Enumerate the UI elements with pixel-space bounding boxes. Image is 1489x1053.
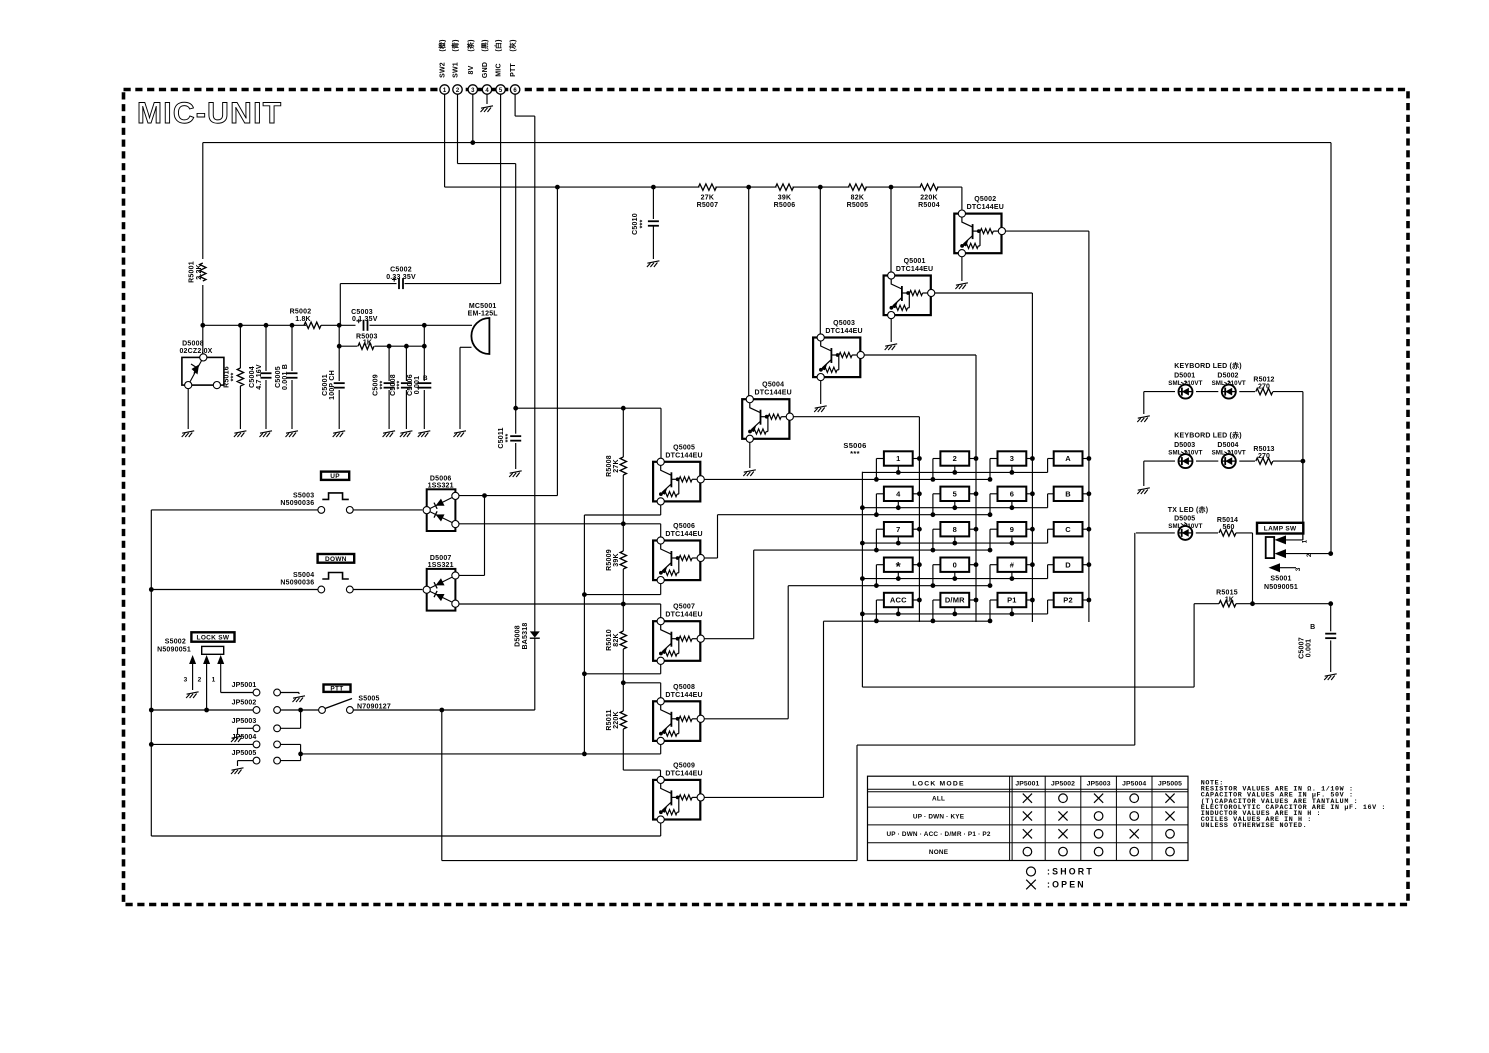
- key S5006 P1: [998, 593, 1027, 607]
- node 8V rail junction pin3: [470, 140, 475, 145]
- wire key right stub: [1083, 493, 1089, 495]
- svg-text:SW1: SW1: [453, 62, 460, 78]
- svg-text:***: ***: [640, 220, 647, 229]
- wire left rail vertical: [150, 510, 152, 836]
- wire TX LED net: [441, 710, 443, 861]
- svg-text:JP5004: JP5004: [1122, 781, 1146, 788]
- wire LED row2 left drop to ground: [1143, 461, 1145, 486]
- wire key right stub: [1026, 458, 1032, 460]
- svg-text:R5008: R5008: [606, 455, 613, 477]
- svg-text:D5003: D5003: [1174, 442, 1195, 449]
- wire key right stub: [913, 458, 920, 460]
- wire S5001 pin2 to 8V: [1286, 553, 1331, 555]
- wire key right stub: [969, 493, 976, 495]
- wire key left stub: [933, 458, 941, 460]
- svg-text:2: 2: [198, 677, 202, 684]
- resistor R5005 82K: [848, 184, 866, 190]
- transistor Q5004 DTC144EU: [742, 396, 793, 443]
- key S5006 D/MR: [940, 593, 969, 607]
- svg-text:JP5001: JP5001: [1015, 781, 1039, 788]
- svg-text:D/MR: D/MR: [945, 596, 965, 605]
- svg-text:39K: 39K: [613, 553, 620, 566]
- key S5006 7: [884, 522, 913, 536]
- svg-text:0.001 B: 0.001 B: [282, 364, 289, 390]
- key S5006 B: [1054, 487, 1083, 501]
- svg-text:2: 2: [953, 454, 957, 463]
- node ladder/Q5008 feed: [621, 680, 626, 685]
- svg-text:8V: 8V: [468, 65, 475, 74]
- wire TX LED row: [1136, 532, 1175, 534]
- svg-text:JP5005: JP5005: [1158, 781, 1182, 788]
- node TX LED branch: [439, 708, 444, 713]
- svg-text:D5002: D5002: [1217, 373, 1238, 380]
- node key lower line: [874, 512, 879, 517]
- ground LED row1: [1137, 416, 1150, 422]
- wire common bus to R5015: [862, 686, 1194, 688]
- wire Q5001 output to column3: [934, 292, 1032, 294]
- svg-text:Q5006: Q5006: [673, 523, 695, 530]
- ground Q5002: [955, 283, 968, 289]
- svg-text:P1: P1: [1007, 596, 1017, 605]
- key S5006 P2: [1054, 593, 1083, 607]
- svg-text:N5090036: N5090036: [280, 500, 314, 507]
- wire key right stub: [913, 599, 920, 601]
- wire Q5006 emitter jog: [660, 584, 662, 595]
- svg-text:S5005: S5005: [358, 696, 379, 703]
- node SW2/D-net branch: [555, 185, 560, 190]
- wire LED row1 left drop to ground: [1143, 392, 1145, 414]
- wire ladder to Q5008 collector: [623, 682, 660, 684]
- svg-text:***: ***: [397, 381, 404, 390]
- svg-text:82K: 82K: [851, 195, 864, 202]
- wire Q5005 emitter jog: [660, 505, 662, 515]
- svg-text:DOWN: DOWN: [325, 556, 347, 563]
- connector pin 3: [468, 85, 477, 94]
- svg-text:1: 1: [896, 454, 900, 463]
- capacitor C5010: [652, 187, 654, 219]
- wire Q5009 emitter to bottom rail: [660, 823, 662, 836]
- ground Q5004: [743, 470, 756, 476]
- wire JP5004/JP5005 right jog: [300, 744, 302, 760]
- node R5008 ladder top: [621, 406, 626, 411]
- wire Q5003 output to column2: [864, 354, 976, 356]
- connector pin 5: [496, 85, 505, 94]
- svg-text:N5090051: N5090051: [157, 647, 191, 654]
- wire key left stub (col4): [1048, 493, 1054, 495]
- wire D5006/D5007 tie: [484, 496, 486, 576]
- svg-text:S5002: S5002: [165, 639, 186, 646]
- dual diode D5007 1SS321: [423, 569, 459, 611]
- wire JP5003 left to ground: [238, 727, 254, 729]
- node JP5002 right branch: [298, 708, 303, 713]
- wire Q5005 output row1 feed: [704, 478, 876, 480]
- wire key left stub: [990, 493, 998, 495]
- svg-text:(茶): (茶): [466, 39, 475, 51]
- wire key bottom stub: [897, 536, 899, 543]
- ground C5005: [286, 431, 299, 437]
- capacitor C5001 100P CH: [338, 346, 340, 381]
- svg-text:DTC144EU: DTC144EU: [665, 612, 702, 619]
- node emitter bus Q5007: [582, 671, 587, 676]
- svg-text:C5004: C5004: [249, 366, 256, 388]
- wire Q5007 emitter jog: [660, 664, 662, 673]
- wire key right stub: [913, 528, 920, 530]
- svg-text:02CZ2.0X: 02CZ2.0X: [179, 348, 212, 355]
- node rail2 C5009: [387, 344, 392, 349]
- key S5006 5: [940, 487, 969, 501]
- wire key bottom stub: [954, 607, 956, 614]
- transistor Q5003 DTC144EU: [813, 334, 864, 381]
- wire key right stub: [1026, 564, 1032, 566]
- wire ladder top segment: [622, 408, 624, 457]
- wire R5001 vertical from 8V rail: [202, 143, 204, 259]
- wire to Q5002 collector: [961, 187, 963, 210]
- wire zener to ground: [187, 389, 189, 429]
- svg-text:1SS321: 1SS321: [428, 562, 454, 569]
- node DOWN rail left: [149, 587, 154, 592]
- svg-text:3: 3: [1010, 454, 1014, 463]
- node rail1 C5002 tap: [337, 323, 342, 328]
- svg-text:C5005: C5005: [275, 366, 282, 388]
- wire key right stub: [1083, 528, 1089, 530]
- switch S5002 body: [202, 646, 224, 654]
- svg-text:LOCK MODE: LOCK MODE: [912, 781, 964, 788]
- wire keypad row upper line: [862, 471, 1047, 473]
- svg-text:C5002: C5002: [390, 267, 412, 274]
- svg-text:R5016: R5016: [224, 366, 231, 388]
- svg-text:C5007: C5007: [1299, 637, 1306, 659]
- key S5006 9: [998, 522, 1027, 536]
- key S5006 6: [998, 487, 1027, 501]
- svg-text:PTT: PTT: [510, 63, 517, 77]
- svg-text:4.7 16V: 4.7 16V: [256, 364, 263, 390]
- wire Q5002 output to column4: [1005, 230, 1089, 232]
- wire key bottom stub: [1011, 466, 1013, 473]
- wire pin5 MIC drop: [500, 94, 502, 284]
- svg-text:MC5001: MC5001: [469, 303, 497, 310]
- svg-text:***: ***: [505, 434, 512, 443]
- wire JP5005 left to ground: [238, 760, 254, 762]
- svg-text::SHORT: :SHORT: [1047, 867, 1094, 877]
- wire LED row1: [1144, 391, 1175, 393]
- wire key right stub: [969, 599, 976, 601]
- transistor Q5007 DTC144EU: [653, 618, 704, 665]
- resistor R5001 2.2K: [200, 263, 206, 281]
- svg-text:DTC144EU: DTC144EU: [665, 531, 702, 538]
- svg-text:MIC: MIC: [496, 63, 503, 76]
- svg-text:C5010: C5010: [632, 213, 639, 235]
- transistor Q5005 DTC144EU: [653, 458, 704, 505]
- wire Q5003 emitter to ground: [820, 381, 822, 404]
- svg-text:D5004: D5004: [1217, 442, 1238, 449]
- svg-text:82K: 82K: [613, 633, 620, 646]
- wire key left stub: [990, 599, 998, 601]
- svg-text:MIC-UNIT: MIC-UNIT: [137, 97, 282, 130]
- svg-text:Q5002: Q5002: [974, 196, 996, 203]
- node key lower line: [988, 619, 993, 624]
- svg-text:ACC: ACC: [890, 596, 907, 605]
- svg-text:27K: 27K: [701, 195, 714, 202]
- label box DOWN: [318, 554, 355, 563]
- node key lower line: [988, 512, 993, 517]
- label box LAMP SW: [1257, 523, 1303, 534]
- switch S5001 pin3 (NC): [1269, 563, 1281, 572]
- svg-text:P2: P2: [1063, 596, 1073, 605]
- wire key right stub: [913, 564, 920, 566]
- jumper JP5001: [253, 689, 260, 696]
- jumper JP5003: [253, 725, 260, 732]
- wire DOWN rail: [151, 589, 318, 591]
- svg-text:1K: 1K: [363, 340, 372, 347]
- connector pin 6: [510, 85, 519, 94]
- svg-text:***: ***: [850, 449, 860, 458]
- svg-text:***: ***: [231, 373, 238, 382]
- wire key bottom stub: [1011, 536, 1013, 543]
- resistor R5007 27K: [698, 184, 716, 190]
- wire key left stub (col4): [1048, 458, 1054, 460]
- node SW1 collector node: [513, 406, 518, 411]
- capacitor C5006 0.001 B: [423, 346, 425, 381]
- switch S5002 pin3 arrow: [189, 655, 196, 664]
- svg-text:DTC144EU: DTC144EU: [755, 390, 792, 397]
- capacitor C5005 0.001 B: [291, 325, 293, 371]
- resistor R5015 1K: [1219, 601, 1236, 607]
- wire key right stub: [969, 528, 976, 530]
- resistor R5003 1K: [358, 343, 374, 349]
- wire Q5004 output to column1: [793, 416, 919, 418]
- svg-text:DTC144EU: DTC144EU: [665, 770, 702, 777]
- wire key bottom stub: [1011, 607, 1013, 614]
- switch S5003 N5090036 (UP): [318, 507, 325, 514]
- capacitor C5007 0.001 B: [1330, 604, 1332, 632]
- key S5006 C: [1054, 522, 1083, 536]
- svg-text:R5009: R5009: [606, 549, 613, 571]
- svg-text:A: A: [1065, 454, 1071, 463]
- wire JP5003 right jog: [281, 727, 301, 729]
- svg-text:JP5003: JP5003: [232, 718, 257, 725]
- svg-text:SW2: SW2: [440, 62, 447, 78]
- key S5006 1: [884, 451, 913, 465]
- connector pin 1: [440, 85, 449, 94]
- node rail2 C5008: [404, 344, 409, 349]
- ground JP5005: [231, 768, 244, 774]
- switch S5004 N5090036 (DOWN): [318, 586, 325, 593]
- wire key right stub: [969, 458, 976, 460]
- wire key right stub: [1083, 564, 1089, 566]
- resistor R5009 39K: [622, 524, 624, 551]
- svg-text:1: 1: [1302, 539, 1309, 543]
- svg-text:Q5007: Q5007: [673, 604, 695, 611]
- transistor Q5006 DTC144EU: [653, 537, 704, 584]
- wire Q5009 output row5 feed: [704, 796, 824, 798]
- wire S5003 to D5006: [353, 509, 422, 511]
- wire pin2 SW1 jog: [457, 94, 459, 164]
- node common bus: [860, 612, 865, 617]
- capacitor C5011 ***: [515, 408, 517, 434]
- wire keypad row upper line: [862, 507, 1047, 509]
- table LOCK MODE jumper settings: [868, 776, 1189, 860]
- node common bus: [860, 576, 865, 581]
- svg-text:(白): (白): [494, 39, 503, 51]
- svg-text:JP5001: JP5001: [232, 682, 257, 689]
- node key lower line: [931, 512, 936, 517]
- wire D5006 out to Q5006 collector: [458, 523, 623, 525]
- svg-text:JP5003: JP5003: [1087, 781, 1111, 788]
- svg-text:NONE: NONE: [929, 849, 949, 856]
- wire key bottom stub: [1011, 501, 1013, 508]
- svg-text:Q5008: Q5008: [673, 684, 695, 691]
- svg-text:3: 3: [184, 677, 188, 684]
- schematic border frame: [124, 90, 1409, 905]
- svg-text:D5001: D5001: [1174, 373, 1195, 380]
- svg-text:C5003: C5003: [351, 309, 373, 316]
- svg-text:R5014: R5014: [1217, 517, 1238, 524]
- wire Q5006 output row2 feed: [704, 557, 718, 559]
- ground S5002 pin3: [186, 692, 199, 698]
- svg-text:LAMP SW: LAMP SW: [1264, 526, 1297, 533]
- node JP net to emitter bus: [298, 752, 303, 757]
- svg-text:(青): (青): [451, 39, 460, 51]
- node key lower line: [874, 619, 879, 624]
- node PTT rail left: [149, 708, 154, 713]
- wire key right stub: [1026, 493, 1032, 495]
- wire keypad row upper line: [862, 578, 1047, 580]
- key S5006 4: [884, 487, 913, 501]
- wire key bottom stub: [1011, 572, 1013, 579]
- wire key left stub: [990, 458, 998, 460]
- wire key left stub (col4): [1048, 528, 1054, 530]
- node key lower line: [988, 583, 993, 588]
- svg-text:KEYBORD LED (赤): KEYBORD LED (赤): [1174, 361, 1242, 370]
- key S5006 ACC: [884, 593, 913, 607]
- ground C5006: [418, 431, 431, 437]
- svg-text:0.001: 0.001: [1306, 639, 1313, 658]
- resistor R5010 82K: [622, 604, 624, 631]
- ground pin4: [481, 106, 494, 112]
- microphone MC5001 EM-125L: [471, 318, 489, 354]
- svg-text:S5001: S5001: [1270, 576, 1291, 583]
- connector pin 2: [453, 85, 462, 94]
- resistor R5016 ***: [239, 325, 241, 368]
- svg-text:0.1 35V: 0.1 35V: [352, 316, 378, 323]
- node emitter bus Q5008: [582, 752, 587, 757]
- svg-text:R5001: R5001: [189, 261, 196, 283]
- wire S5001 pin1: [1286, 539, 1303, 541]
- node rail1 mic node: [422, 323, 427, 328]
- svg-text:4: 4: [896, 489, 901, 498]
- wire mic bottom lead: [460, 346, 472, 348]
- svg-text:8: 8: [953, 525, 957, 534]
- diode D5009 BA5318: [534, 639, 536, 711]
- wire key right stub: [1083, 599, 1089, 601]
- svg-text:Q5004: Q5004: [762, 382, 784, 389]
- key S5006 A: [1054, 451, 1083, 465]
- node key lower line: [931, 619, 936, 624]
- svg-text:*: *: [896, 559, 902, 574]
- wire PTT rail: [151, 709, 253, 711]
- wire key bottom stub: [954, 466, 956, 473]
- svg-text:220K: 220K: [920, 195, 938, 202]
- svg-text:C5006: C5006: [407, 374, 414, 396]
- svg-text:1SS321: 1SS321: [428, 483, 454, 490]
- svg-text:C: C: [1065, 525, 1071, 534]
- key S5006 8: [940, 522, 969, 536]
- wire 8V rail right drop: [1330, 143, 1332, 554]
- wire Q5001 emitter to ground: [890, 319, 892, 342]
- svg-text:1.8K: 1.8K: [295, 316, 311, 323]
- key S5006 0: [940, 558, 969, 572]
- wire UP rail: [151, 509, 318, 511]
- wire key bottom stub: [897, 466, 899, 473]
- node LED right rail row2: [1301, 459, 1306, 464]
- svg-text:DTC144EU: DTC144EU: [665, 452, 702, 459]
- ground mic: [454, 431, 467, 437]
- node R5014 branch: [1250, 601, 1255, 606]
- svg-text:UP · DWN · ACC · D/MR · P1 · P: UP · DWN · ACC · D/MR · P1 · P2: [886, 831, 990, 838]
- capacitor C5009 ***: [388, 346, 390, 381]
- node C5010 tap: [651, 185, 656, 190]
- svg-text:DTC144EU: DTC144EU: [967, 204, 1004, 211]
- ground C5001: [333, 431, 346, 437]
- svg-text:1: 1: [212, 677, 216, 684]
- node common bus: [860, 541, 865, 546]
- ground C5009: [383, 431, 396, 437]
- svg-text:Q5005: Q5005: [673, 444, 695, 451]
- wire keypad row upper line: [862, 613, 1047, 615]
- wire D5007 out to Q5007 collector: [458, 603, 623, 605]
- ground Q5003: [814, 406, 827, 412]
- svg-text:D5008: D5008: [515, 625, 522, 647]
- node common bus: [860, 505, 865, 510]
- wire SW2 rail: [445, 186, 700, 188]
- wire Q5007 output row3 feed: [704, 638, 754, 640]
- node key lower line: [988, 548, 993, 553]
- svg-text:R5007: R5007: [697, 202, 719, 209]
- wire key right stub: [969, 564, 976, 566]
- wire SW1 node to Q5005 collector: [516, 407, 661, 409]
- ground C5011: [509, 471, 522, 477]
- svg-text:2.2K: 2.2K: [196, 264, 203, 280]
- ground C5008: [400, 431, 413, 437]
- wire JP5004 left to rail: [151, 743, 253, 745]
- wire key bottom stub: [897, 572, 899, 579]
- svg-text:N5090051: N5090051: [1264, 584, 1298, 591]
- ground C5004: [260, 431, 273, 437]
- svg-text:ALL: ALL: [932, 796, 945, 803]
- wire key left stub: [876, 458, 884, 460]
- wire key right stub: [913, 493, 920, 495]
- svg-text:R5012: R5012: [1253, 377, 1274, 384]
- svg-text:Q5009: Q5009: [673, 762, 695, 769]
- connector pin 4: [482, 85, 491, 94]
- svg-text:UNLESS OTHERWISE NOTED.: UNLESS OTHERWISE NOTED.: [1201, 822, 1308, 830]
- wire key left stub: [933, 493, 941, 495]
- svg-text:DTC144EU: DTC144EU: [896, 266, 933, 273]
- svg-text:7: 7: [896, 525, 900, 534]
- capacitor C5008 ***: [405, 346, 407, 381]
- svg-text:S5003: S5003: [293, 492, 314, 499]
- svg-text:LOCK SW: LOCK SW: [197, 634, 230, 641]
- wire key left stub: [876, 493, 884, 495]
- node key lower line: [931, 583, 936, 588]
- svg-text:(灰): (灰): [508, 39, 517, 51]
- node Q5004 collector tap: [746, 185, 751, 190]
- transistor Q5008 DTC144EU: [653, 698, 704, 745]
- key S5006 D: [1054, 558, 1083, 572]
- svg-text:D: D: [1065, 560, 1071, 569]
- ground JP5003: [231, 736, 244, 742]
- wire key bottom stub: [954, 536, 956, 543]
